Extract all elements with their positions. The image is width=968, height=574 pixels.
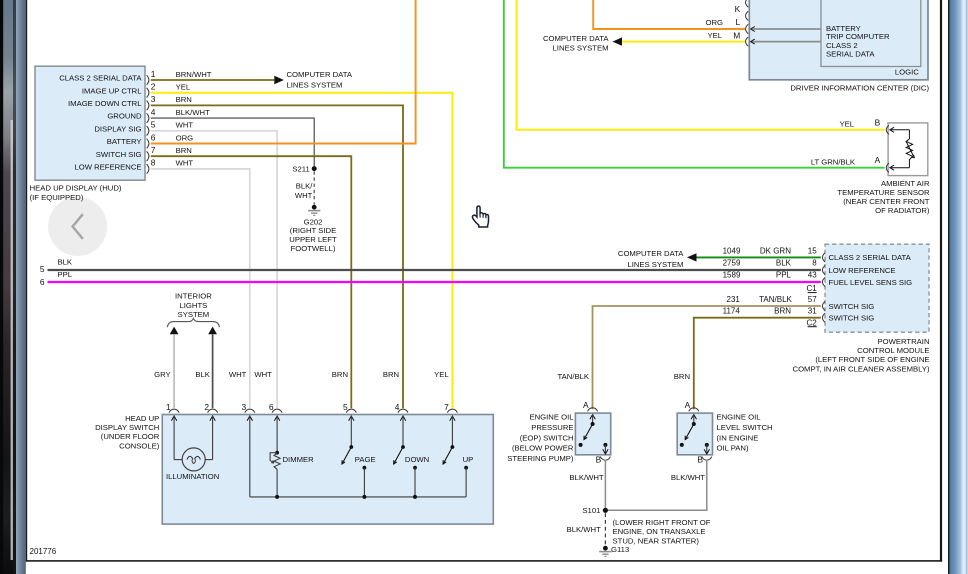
wire PPL 1589 line 6 fuel level sens sig bbox=[40, 270, 821, 287]
svg-text:6: 6 bbox=[269, 402, 274, 412]
level switch S3: engine oil level switch bbox=[677, 400, 712, 464]
svg-text:(LOWER RIGHT FRONT OF: (LOWER RIGHT FRONT OF bbox=[613, 518, 711, 527]
svg-text:C1: C1 bbox=[806, 284, 817, 293]
svg-text:BRN: BRN bbox=[176, 95, 192, 104]
svg-text:POWERTRAIN: POWERTRAIN bbox=[878, 337, 930, 346]
svg-text:43: 43 bbox=[808, 271, 817, 280]
thermistor element inside sensor bbox=[890, 127, 915, 170]
HUD pin numbers 1-8 bbox=[151, 69, 156, 168]
switch PAGE bbox=[342, 416, 376, 497]
svg-text:31: 31 bbox=[808, 307, 817, 316]
svg-text:201776: 201776 bbox=[30, 547, 57, 556]
svg-text:DRIVER INFORMATION CENTER (DIC: DRIVER INFORMATION CENTER (DIC) bbox=[790, 84, 929, 93]
svg-text:(BELOW POWER: (BELOW POWER bbox=[512, 444, 574, 453]
op DIC: driver information center box bbox=[749, 0, 928, 80]
svg-text:ENGINE, ON TRANSAXLE: ENGINE, ON TRANSAXLE bbox=[613, 527, 706, 536]
wire WHT pin8 low reference bbox=[151, 169, 250, 408]
svg-text:LINES SYSTEM: LINES SYSTEM bbox=[553, 43, 609, 52]
svg-text:COMPUTER DATA: COMPUTER DATA bbox=[618, 249, 684, 258]
label engine oil pressure switch bbox=[507, 412, 574, 462]
DIC internal labels bbox=[826, 24, 919, 77]
ground G113 bbox=[599, 545, 629, 557]
svg-text:COMPUTER DATA: COMPUTER DATA bbox=[543, 34, 609, 43]
svg-text:PPL: PPL bbox=[58, 270, 73, 279]
svg-text:6: 6 bbox=[40, 277, 45, 287]
svg-text:M: M bbox=[733, 31, 740, 41]
svg-text:CLASS 2 SERIAL DATA: CLASS 2 SERIAL DATA bbox=[59, 74, 142, 83]
wire TAN/BLK 231 PCM pin57 switch sig bbox=[558, 295, 821, 409]
wire ORG pin6 battery bbox=[151, 0, 416, 144]
svg-text:STUD, NEAR STARTER): STUD, NEAR STARTER) bbox=[613, 536, 700, 545]
svg-text:GROUND: GROUND bbox=[107, 112, 142, 121]
svg-text:7: 7 bbox=[151, 145, 156, 155]
wire BLK/WHT S101 to G113 (dashed) bbox=[567, 513, 606, 545]
svg-text:ENGINE OIL: ENGINE OIL bbox=[717, 412, 762, 421]
svg-text:TRIP COMPUTER: TRIP COMPUTER bbox=[826, 32, 890, 41]
label powertrain control module bbox=[793, 337, 930, 374]
svg-text:GRY: GRY bbox=[154, 370, 171, 379]
svg-text:BLK/WHT: BLK/WHT bbox=[569, 473, 603, 482]
svg-text:B: B bbox=[596, 454, 602, 464]
op SW1: head up display switch box bbox=[162, 415, 493, 525]
wire YEL pin2 image up ctrl bbox=[151, 93, 453, 409]
svg-text:LIGHTS: LIGHTS bbox=[180, 301, 208, 310]
svg-text:(IN ENGINE: (IN ENGINE bbox=[717, 434, 759, 443]
svg-text:BLK/WHT: BLK/WHT bbox=[671, 473, 705, 482]
svg-text:2: 2 bbox=[151, 82, 156, 92]
svg-text:7: 7 bbox=[444, 402, 449, 412]
wire BLK to interior lights bbox=[208, 327, 217, 409]
svg-text:OIL PAN): OIL PAN) bbox=[717, 444, 749, 453]
rheostat DIMMER bbox=[270, 416, 314, 497]
svg-text:TAN/BLK: TAN/BLK bbox=[558, 372, 590, 381]
svg-text:LINES SYSTEM: LINES SYSTEM bbox=[287, 80, 343, 89]
svg-text:UP: UP bbox=[463, 455, 474, 464]
label HEAD UP DISPLAY (HUD) bbox=[30, 184, 122, 203]
svg-text:A: A bbox=[685, 400, 691, 410]
svg-text:1589: 1589 bbox=[723, 271, 741, 280]
node label computer data lines system (HUD) bbox=[287, 70, 353, 89]
svg-text:(RIGHT SIDE: (RIGHT SIDE bbox=[290, 226, 336, 235]
label G113 location bbox=[613, 518, 711, 546]
wire BLK/WHT level switch pin B to S101 bbox=[608, 460, 707, 510]
svg-text:HEAD UP: HEAD UP bbox=[125, 414, 159, 423]
PCM connector C2 label bbox=[806, 318, 817, 327]
svg-text:TAN/BLK: TAN/BLK bbox=[759, 295, 792, 304]
HUD pin connectors 1-8 bbox=[147, 75, 149, 174]
node S101 splice bbox=[582, 506, 608, 515]
svg-text:SWITCH SIG: SWITCH SIG bbox=[96, 150, 142, 159]
svg-text:4: 4 bbox=[151, 107, 156, 117]
wire BRN pin7 switch sig bbox=[151, 156, 351, 408]
svg-text:COMPT, IN AIR CLEANER ASSEMBLY: COMPT, IN AIR CLEANER ASSEMBLY) bbox=[793, 364, 930, 373]
wire BLK 2759 line 5 low reference bbox=[40, 257, 821, 274]
switch pin numbers bbox=[166, 402, 449, 412]
node label computer data lines system (PCM) bbox=[618, 249, 684, 269]
svg-text:BLK: BLK bbox=[776, 258, 792, 267]
label head up display switch bbox=[95, 414, 160, 451]
svg-text:231: 231 bbox=[727, 295, 741, 304]
svg-text:BLK/WHT: BLK/WHT bbox=[176, 108, 210, 117]
switch wire color labels bbox=[154, 370, 449, 379]
HUD pin function labels bbox=[59, 74, 142, 172]
wire BLK/WHT EOP pin B to S101 bbox=[569, 460, 605, 510]
svg-text:FUEL LEVEL SENS SIG: FUEL LEVEL SENS SIG bbox=[829, 278, 913, 287]
svg-text:BRN: BRN bbox=[774, 307, 791, 316]
svg-text:4: 4 bbox=[395, 402, 400, 412]
svg-text:1174: 1174 bbox=[723, 307, 741, 316]
wire GRY to interior lights bbox=[170, 327, 179, 409]
svg-text:6: 6 bbox=[151, 132, 156, 142]
svg-text:C2: C2 bbox=[806, 318, 817, 327]
HUD wire color labels bbox=[176, 70, 212, 168]
svg-text:FOOTWELL): FOOTWELL) bbox=[291, 244, 336, 253]
svg-text:WHT: WHT bbox=[295, 191, 313, 200]
svg-text:DK GRN: DK GRN bbox=[760, 247, 791, 256]
svg-text:IMAGE DOWN CTRL: IMAGE DOWN CTRL bbox=[68, 99, 142, 108]
svg-text:YEL: YEL bbox=[839, 120, 854, 129]
svg-text:K: K bbox=[735, 4, 741, 14]
wire BRN pin3 image down ctrl bbox=[151, 105, 403, 408]
wire YEL from top to ambient sensor pin B bbox=[517, 0, 885, 130]
svg-text:BRN: BRN bbox=[176, 146, 192, 155]
wire YEL DIC pin M to computer data lines bbox=[613, 31, 746, 46]
svg-text:PAGE: PAGE bbox=[355, 455, 376, 464]
svg-text:15: 15 bbox=[808, 247, 817, 256]
op PCM: powertrain control module box (dashed) bbox=[825, 244, 929, 332]
svg-text:HEAD UP DISPLAY (HUD): HEAD UP DISPLAY (HUD) bbox=[30, 184, 122, 193]
svg-text:5: 5 bbox=[151, 120, 156, 130]
svg-text:B: B bbox=[697, 454, 703, 464]
svg-text:ENGINE OIL: ENGINE OIL bbox=[529, 412, 574, 421]
wire WHT pin5 display sig bbox=[151, 131, 277, 408]
svg-text:2759: 2759 bbox=[723, 258, 741, 267]
svg-text:PRESSURE: PRESSURE bbox=[531, 423, 573, 432]
svg-text:OF RADIATOR): OF RADIATOR) bbox=[875, 206, 930, 215]
svg-text:LOW REFERENCE: LOW REFERENCE bbox=[74, 163, 141, 172]
wire BRN 1174 PCM pin31 switch sig bbox=[674, 307, 821, 410]
svg-text:CONSOLE): CONSOLE) bbox=[119, 441, 160, 450]
svg-text:WHT: WHT bbox=[229, 370, 247, 379]
svg-text:5: 5 bbox=[40, 264, 45, 274]
svg-text:G202: G202 bbox=[304, 217, 323, 226]
svg-text:TEMPERATURE SENSOR: TEMPERATURE SENSOR bbox=[837, 188, 930, 197]
svg-text:A: A bbox=[875, 155, 881, 165]
DIC logic inner box bbox=[821, 0, 921, 67]
switch DOWN bbox=[394, 416, 430, 497]
svg-text:B: B bbox=[875, 117, 881, 127]
svg-text:DIMMER: DIMMER bbox=[283, 455, 315, 464]
svg-text:IMAGE UP CTRL: IMAGE UP CTRL bbox=[82, 86, 142, 95]
svg-text:COMPUTER DATA: COMPUTER DATA bbox=[287, 70, 353, 79]
wire internal common bus bbox=[250, 416, 466, 499]
svg-text:DOWN: DOWN bbox=[405, 455, 429, 464]
svg-text:(IF EQUIPPED): (IF EQUIPPED) bbox=[30, 193, 84, 202]
PCM connector C1 label bbox=[806, 284, 817, 293]
svg-text:UPPER LEFT: UPPER LEFT bbox=[289, 235, 337, 244]
PCM pin connectors bbox=[822, 253, 825, 322]
svg-text:(LEFT FRONT SIDE OF ENGINE: (LEFT FRONT SIDE OF ENGINE bbox=[815, 355, 929, 364]
svg-text:3: 3 bbox=[242, 402, 247, 412]
sensor wire labels bbox=[811, 120, 856, 167]
svg-text:8: 8 bbox=[151, 158, 156, 168]
svg-text:(NEAR CENTER FRONT: (NEAR CENTER FRONT bbox=[843, 197, 930, 206]
svg-text:LOW REFERENCE: LOW REFERENCE bbox=[829, 266, 896, 275]
svg-text:5: 5 bbox=[343, 402, 348, 412]
svg-text:A: A bbox=[583, 400, 589, 410]
svg-text:SWITCH SIG: SWITCH SIG bbox=[829, 314, 875, 323]
svg-text:WHT: WHT bbox=[176, 121, 194, 130]
back navigation button bbox=[48, 197, 107, 256]
wire ORG from top to DIC pin L bbox=[593, 0, 745, 29]
svg-text:57: 57 bbox=[808, 295, 817, 304]
svg-text:DISPLAY SIG: DISPLAY SIG bbox=[94, 124, 141, 133]
svg-text:LINES SYSTEM: LINES SYSTEM bbox=[627, 260, 683, 269]
svg-text:SERIAL DATA: SERIAL DATA bbox=[826, 49, 875, 58]
svg-text:ORG: ORG bbox=[705, 18, 723, 27]
svg-text:AMBIENT AIR: AMBIENT AIR bbox=[881, 179, 930, 188]
wire BLK/WHT pin4 ground to S211 bbox=[151, 118, 314, 166]
mouse cursor (hand pointer) bbox=[472, 206, 488, 227]
svg-text:8: 8 bbox=[812, 258, 817, 267]
svg-text:DISPLAY SWITCH: DISPLAY SWITCH bbox=[95, 423, 159, 432]
lamp ILLUMINATION bbox=[166, 416, 219, 482]
svg-text:BLK: BLK bbox=[58, 257, 73, 266]
svg-text:L: L bbox=[736, 17, 741, 27]
pressure switch S2: engine oil pressure (EOP) switch bbox=[575, 400, 610, 464]
svg-text:LEVEL SWITCH: LEVEL SWITCH bbox=[717, 423, 773, 432]
switch UP bbox=[443, 416, 473, 497]
svg-text:1: 1 bbox=[166, 402, 171, 412]
svg-text:INTERIOR: INTERIOR bbox=[175, 291, 212, 300]
svg-text:YEL: YEL bbox=[707, 31, 722, 40]
svg-text:BRN: BRN bbox=[674, 372, 690, 381]
svg-text:ILLUMINATION: ILLUMINATION bbox=[166, 472, 219, 481]
svg-text:LOGIC: LOGIC bbox=[895, 68, 919, 77]
ground G202 bbox=[289, 205, 337, 253]
svg-text:2: 2 bbox=[204, 402, 209, 412]
DIC internal wire pin L to logic bbox=[751, 27, 821, 32]
svg-text:YEL: YEL bbox=[434, 370, 449, 379]
switch pin connectors bbox=[169, 409, 457, 413]
svg-text:WHT: WHT bbox=[176, 159, 194, 168]
svg-text:BLK/: BLK/ bbox=[296, 181, 314, 190]
svg-text:BLK/WHT: BLK/WHT bbox=[567, 525, 601, 534]
label driver information center bbox=[790, 84, 929, 93]
svg-text:BRN: BRN bbox=[383, 370, 399, 379]
svg-text:STEERING PUMP): STEERING PUMP) bbox=[507, 454, 574, 463]
svg-text:WHT: WHT bbox=[254, 370, 272, 379]
svg-text:(EOP) SWITCH: (EOP) SWITCH bbox=[520, 434, 574, 443]
svg-text:YEL: YEL bbox=[176, 83, 191, 92]
svg-text:SWITCH SIG: SWITCH SIG bbox=[829, 302, 875, 311]
switch pin entry arrows bbox=[171, 416, 455, 421]
DIC internal wire pin M to logic bbox=[751, 39, 821, 44]
node S211 splice bbox=[292, 164, 316, 173]
node label computer data lines system (DIC) bbox=[543, 34, 609, 53]
label sheet number 201776 bbox=[30, 547, 57, 556]
svg-text:1: 1 bbox=[151, 69, 156, 79]
svg-text:ORG: ORG bbox=[176, 133, 194, 142]
svg-text:3: 3 bbox=[151, 94, 156, 104]
svg-text:BRN/WHT: BRN/WHT bbox=[176, 70, 212, 79]
label engine oil level switch bbox=[717, 412, 773, 452]
svg-text:G113: G113 bbox=[611, 545, 629, 554]
label ambient air temperature sensor bbox=[837, 179, 930, 215]
svg-text:1049: 1049 bbox=[723, 247, 741, 256]
wire LT GRN/BLK from top to ambient sensor pin A bbox=[504, 0, 885, 168]
svg-text:S211: S211 bbox=[292, 164, 309, 173]
svg-text:S101: S101 bbox=[582, 506, 600, 515]
PCM internal labels bbox=[829, 253, 913, 322]
node interior lights system bbox=[167, 291, 219, 327]
svg-text:(UNDER FLOOR: (UNDER FLOOR bbox=[101, 432, 160, 441]
wire DK GRN 1049 PCM pin15 class 2 serial data bbox=[687, 247, 821, 262]
svg-text:PPL: PPL bbox=[776, 271, 792, 280]
sensor RT1: ambient air temperature sensor box bbox=[888, 123, 928, 176]
svg-text:BATTERY: BATTERY bbox=[107, 137, 142, 146]
svg-text:LT GRN/BLK: LT GRN/BLK bbox=[811, 157, 856, 166]
svg-text:BLK: BLK bbox=[195, 370, 210, 379]
wire BLK/WHT S211 to G202 (dashed) bbox=[295, 171, 314, 204]
DIC pin connectors and letters K L M bbox=[733, 0, 748, 46]
svg-text:CONTROL MODULE: CONTROL MODULE bbox=[857, 346, 929, 355]
op HUD: head up display component box U1 bbox=[35, 66, 145, 180]
svg-text:CLASS 2 SERIAL DATA: CLASS 2 SERIAL DATA bbox=[829, 253, 912, 262]
sensor pin connectors A B bbox=[875, 117, 889, 172]
wire BRN/WHT pin1 class2 serial data bbox=[151, 76, 284, 84]
svg-text:BRN: BRN bbox=[332, 370, 348, 379]
